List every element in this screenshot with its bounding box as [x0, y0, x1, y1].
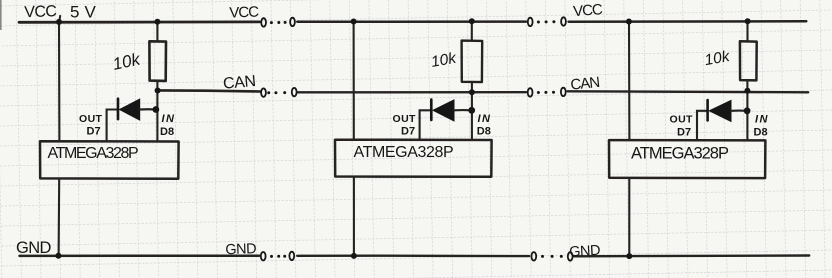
svg-text:OUT: OUT [670, 113, 694, 125]
svg-text:IN: IN [162, 113, 176, 125]
svg-text:IN: IN [755, 113, 769, 125]
svg-text:VCC: VCC [573, 1, 604, 20]
svg-text:D7: D7 [87, 126, 101, 138]
svg-text:D8: D8 [160, 126, 174, 138]
svg-text:OUT: OUT [79, 113, 103, 125]
svg-text:CAN: CAN [222, 73, 256, 93]
svg-text:VCC: VCC [24, 3, 57, 21]
svg-text:GND: GND [225, 241, 256, 258]
svg-text:GND: GND [569, 243, 601, 261]
svg-text:D7: D7 [401, 126, 415, 138]
svg-text:IN: IN [478, 113, 492, 125]
svg-text:VCC: VCC [229, 4, 259, 22]
svg-text:CAN: CAN [570, 74, 600, 94]
svg-text:GND: GND [16, 239, 52, 257]
svg-text:D7: D7 [677, 126, 691, 138]
svg-text:ATMEGA328P: ATMEGA328P [631, 145, 729, 163]
svg-text:ATMEGA328P: ATMEGA328P [48, 145, 138, 162]
svg-text:D8: D8 [477, 126, 491, 138]
svg-text:D8: D8 [754, 127, 768, 139]
svg-text:5V: 5V [70, 3, 101, 22]
svg-text:OUT: OUT [393, 113, 417, 125]
svg-text:ATMEGA328P: ATMEGA328P [354, 144, 454, 161]
